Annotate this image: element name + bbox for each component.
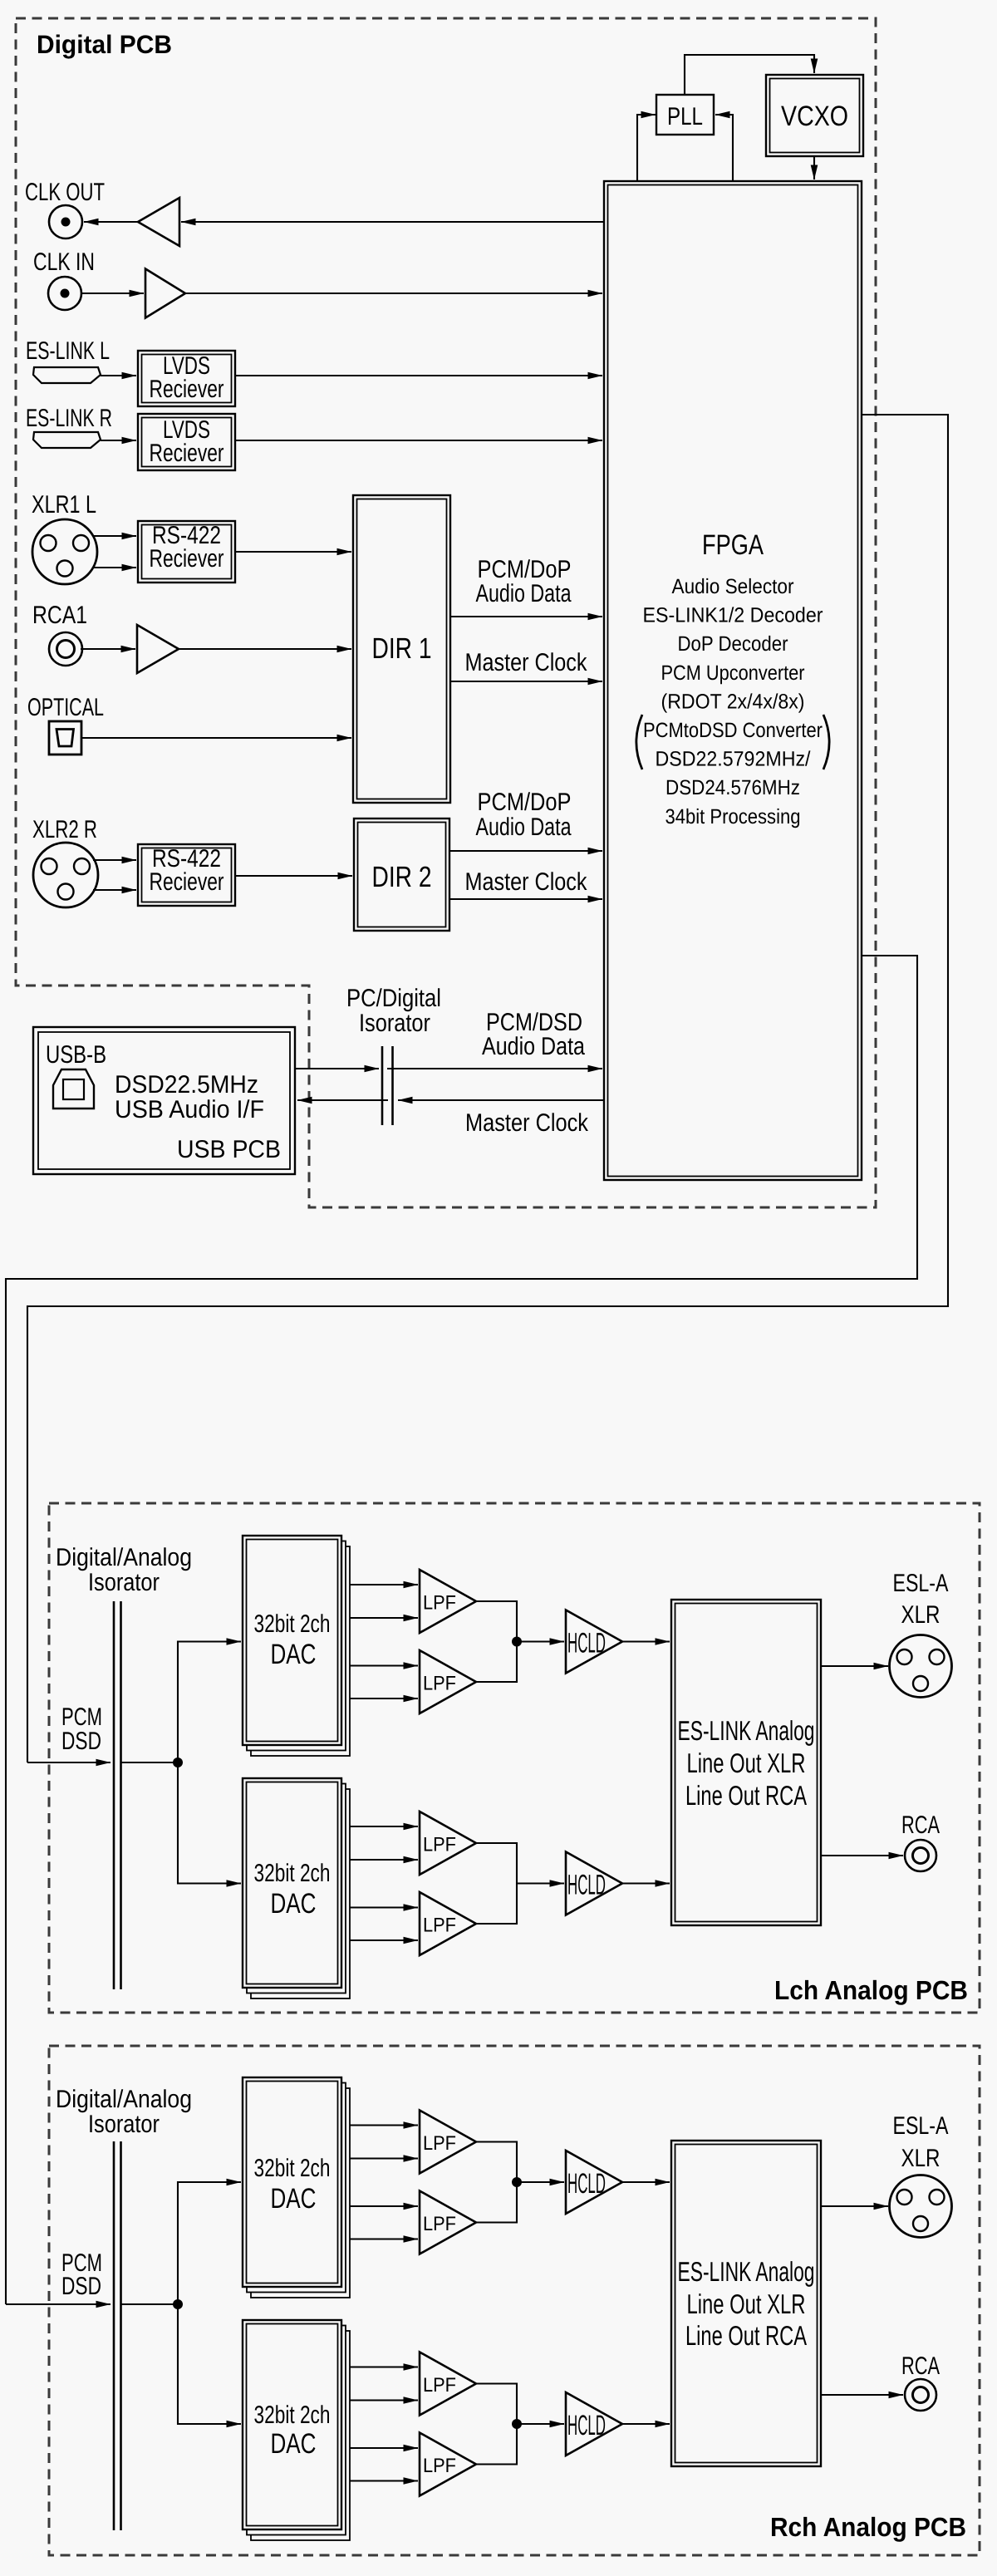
svg-text:Digital/Analog: Digital/Analog <box>56 2086 192 2113</box>
Digital PCB dashed boundary <box>16 18 876 1207</box>
wire Rch to RCA out <box>821 2394 903 2396</box>
wire HCLD Lch group 1 to line-out block <box>622 1640 670 1642</box>
junction dot Lch input <box>173 1757 183 1767</box>
wire FPGA to PLL right <box>715 115 733 181</box>
wire Rch junction to DAC1 <box>178 2182 241 2304</box>
junction dot Rch group 2 <box>512 2419 522 2429</box>
amp LPF Rch 3 <box>420 2352 476 2416</box>
wire FPGA to CLK OUT buffer <box>181 221 604 223</box>
svg-text:LPF: LPF <box>423 2374 456 2397</box>
wire to HCLD Rch group 2 <box>517 2423 564 2425</box>
FPGA big parentheses <box>636 715 642 769</box>
svg-text:LPF: LPF <box>423 2455 456 2477</box>
svg-text:Reciever: Reciever <box>150 545 224 573</box>
block 32bit 2ch DAC Lch 1 (stacked) <box>251 1546 350 1756</box>
svg-text:XLR: XLR <box>901 1601 941 1629</box>
wire PCM/DSD input into Rch isolator <box>6 2303 111 2305</box>
isolator PC/Digital bars <box>381 1046 384 1125</box>
svg-text:32bit 2ch: 32bit 2ch <box>254 1860 331 1887</box>
svg-text:LPF: LPF <box>423 1834 456 1856</box>
svg-text:Line Out RCA: Line Out RCA <box>685 2320 807 2351</box>
wire to HCLD Rch group 1 <box>517 2181 564 2183</box>
svg-text:USB PCB: USB PCB <box>177 1136 281 1163</box>
wire USB audio to FPGA <box>295 1068 379 1069</box>
svg-text:Line Out RCA: Line Out RCA <box>685 1780 807 1811</box>
wire XLR2 to RS-422 upper <box>93 859 136 861</box>
wire Lch to RCA out <box>821 1855 903 1856</box>
wire DIR 2 audio data to FPGA <box>449 850 602 852</box>
svg-text:Audio Data: Audio Data <box>482 1033 585 1060</box>
amp HCLD Lch group 2 <box>566 1852 622 1915</box>
svg-text:PC/Digital: PC/Digital <box>346 985 441 1012</box>
svg-text:Digital PCB: Digital PCB <box>37 30 172 59</box>
block 32bit 2ch DAC Rch 1 (stacked) <box>251 2088 350 2298</box>
block LVDS Receiver L <box>138 351 235 406</box>
svg-text:USB-B: USB-B <box>46 1041 106 1069</box>
svg-text:LPF: LPF <box>423 2132 456 2155</box>
connector RCA1 <box>49 632 82 666</box>
svg-text:HCLD: HCLD <box>567 1628 606 1659</box>
connector OPTICAL toslink <box>49 721 81 755</box>
connector ES-LINK L <box>33 367 101 383</box>
connector XLR1 L <box>32 519 97 584</box>
wires DAC Rch 1 outputs to LPFs <box>350 2124 418 2126</box>
svg-text:34bit Processing: 34bit Processing <box>665 805 801 828</box>
svg-text:XLR2 R: XLR2 R <box>32 816 97 843</box>
svg-text:ES-LINK Analog: ES-LINK Analog <box>678 1715 815 1746</box>
connector USB-B icon <box>53 1069 94 1109</box>
amp LPF Lch 1 <box>420 1570 476 1633</box>
wire DIR 2 master clock to FPGA <box>449 898 602 900</box>
svg-text:Audio Selector: Audio Selector <box>672 575 794 598</box>
wire ES-LINK R to LVDS receiver <box>101 440 136 441</box>
junction dot Rch input <box>173 2299 183 2309</box>
wire RCA1 to buffer <box>81 648 135 650</box>
block 32bit 2ch DAC Lch 2 (stacked) <box>251 1789 350 1998</box>
amp LPF Lch 3 <box>420 1812 476 1875</box>
svg-text:OPTICAL: OPTICAL <box>27 694 104 721</box>
svg-text:HCLD: HCLD <box>567 1870 606 1901</box>
svg-text:Reciever: Reciever <box>150 376 224 403</box>
svg-text:Line Out XLR: Line Out XLR <box>687 2288 806 2319</box>
wire RCA1 buffer to DIR 1 <box>179 648 351 650</box>
svg-text:32bit 2ch: 32bit 2ch <box>254 2155 331 2182</box>
svg-text:VCXO: VCXO <box>781 101 848 132</box>
wire Lch to ESL-A XLR out <box>821 1665 888 1667</box>
wire LPF join Lch group 2 <box>476 1843 517 1924</box>
svg-text:ESL-A: ESL-A <box>893 1570 949 1597</box>
wire LVDS R to FPGA <box>235 440 602 441</box>
block PLL <box>656 95 714 135</box>
wire FPGA master clock to USB <box>398 1099 604 1101</box>
wire DIR 1 master clock to FPGA <box>450 681 602 682</box>
block FPGA <box>604 181 862 1180</box>
svg-text:ES-LINK Analog: ES-LINK Analog <box>678 2256 815 2287</box>
svg-text:DIR 2: DIR 2 <box>372 861 432 893</box>
block DIR 2 <box>354 819 449 931</box>
wire HCLD Rch group 1 to line-out block <box>622 2181 670 2183</box>
svg-text:32bit 2ch: 32bit 2ch <box>254 2401 331 2429</box>
wire FPGA to PLL left <box>637 115 656 181</box>
svg-text:HCLD: HCLD <box>567 2410 606 2441</box>
wire Lch junction to DAC2 <box>178 1762 241 1884</box>
wire Rch to ESL-A XLR out <box>821 2205 888 2207</box>
buffer amp CLK OUT <box>138 198 179 246</box>
wire Rch junction to DAC2 <box>178 2304 241 2424</box>
block LVDS Receiver R <box>138 414 235 470</box>
Lch Analog PCB dashed boundary <box>49 1503 980 2013</box>
Rch Analog PCB dashed boundary <box>49 2046 980 2555</box>
connector ESL-A XLR out Lch <box>890 1635 952 1698</box>
block RS-422 Receiver 1 <box>138 521 235 583</box>
svg-text:ES-LINK L: ES-LINK L <box>26 337 110 365</box>
svg-text:Lch Analog PCB: Lch Analog PCB <box>774 1975 968 2005</box>
svg-text:Audio Data: Audio Data <box>476 580 572 607</box>
wire LPF join Rch group 1 <box>476 2142 517 2223</box>
wire XLR1 to RS-422 upper <box>92 535 136 537</box>
wires DAC Lch 1 outputs to LPFs <box>350 1584 418 1585</box>
amp LPF Lch 2 <box>420 1650 476 1713</box>
isolator Digital/Analog bars Rch <box>113 2141 115 2530</box>
connector ES-LINK R <box>33 432 101 448</box>
svg-text:USB Audio I/F: USB Audio I/F <box>115 1096 264 1123</box>
amp LPF Rch 1 <box>420 2111 476 2174</box>
svg-text:PCM Upconverter: PCM Upconverter <box>661 661 805 685</box>
wire to HCLD Lch group 2 <box>517 1882 564 1884</box>
connector RCA out Lch <box>905 1840 936 1871</box>
svg-text:(RDOT 2x/4x/8x): (RDOT 2x/4x/8x) <box>661 690 805 713</box>
wire VCXO to FPGA <box>813 156 815 179</box>
svg-text:XLR: XLR <box>901 2145 941 2172</box>
amp HCLD Rch group 1 <box>566 2151 622 2214</box>
wire CLK IN jack to buffer <box>81 293 144 294</box>
svg-text:CLK IN: CLK IN <box>33 248 95 276</box>
svg-text:Audio Data: Audio Data <box>476 814 572 841</box>
svg-text:PCMtoDSD Converter: PCMtoDSD Converter <box>643 719 823 742</box>
connector CLK OUT BNC <box>49 205 82 238</box>
svg-text:ES-LINK1/2 Decoder: ES-LINK1/2 Decoder <box>643 604 823 627</box>
wire XLR1 to RS-422 lower <box>92 567 136 568</box>
block 32bit 2ch DAC Rch 2 (stacked) <box>251 2331 350 2540</box>
wire LVDS L to FPGA <box>235 375 602 376</box>
wires DAC Rch 2 outputs to LPFs <box>350 2366 418 2367</box>
svg-text:Digital/Analog: Digital/Analog <box>56 1544 192 1571</box>
wire DIR 1 audio data to FPGA <box>450 616 602 617</box>
connector CLK IN BNC <box>48 277 81 310</box>
svg-text:ES-LINK R: ES-LINK R <box>26 405 112 432</box>
svg-text:HCLD: HCLD <box>567 2168 606 2200</box>
svg-text:RCA: RCA <box>901 1812 940 1839</box>
amp LPF Rch 4 <box>420 2433 476 2496</box>
svg-text:CLK OUT: CLK OUT <box>25 179 105 206</box>
junction dot Rch group 1 <box>512 2177 522 2187</box>
svg-text:DAC: DAC <box>271 1888 317 1920</box>
wire FPGA to Lch analog board <box>27 415 948 1762</box>
wire PLL to VCXO <box>685 55 814 95</box>
wire FPGA to Rch analog board <box>6 956 917 2304</box>
svg-text:DSD22.5792MHz/: DSD22.5792MHz/ <box>656 748 811 771</box>
svg-text:Isorator: Isorator <box>88 1569 160 1596</box>
block VCXO <box>766 75 863 156</box>
svg-text:DIR 1: DIR 1 <box>372 632 432 665</box>
svg-text:Master Clock: Master Clock <box>465 1109 589 1137</box>
svg-text:32bit 2ch: 32bit 2ch <box>254 1610 331 1638</box>
svg-text:Isorator: Isorator <box>359 1010 430 1037</box>
block USB PCB <box>33 1027 295 1174</box>
wires DAC Lch 2 outputs to LPFs <box>350 1826 418 1827</box>
svg-text:Reciever: Reciever <box>150 868 224 896</box>
svg-text:LPF: LPF <box>423 1915 456 1937</box>
wire HCLD Lch group 2 to line-out block <box>622 1882 670 1884</box>
connector RCA out Rch <box>905 2379 936 2411</box>
amp LPF Lch 4 <box>420 1892 476 1955</box>
svg-text:RCA1: RCA1 <box>32 602 87 629</box>
svg-text:DAC: DAC <box>271 2428 317 2460</box>
isolator Digital/Analog bars Lch <box>113 1601 115 1989</box>
wire to HCLD Lch group 1 <box>517 1640 564 1642</box>
svg-text:LPF: LPF <box>423 1592 456 1615</box>
wire HCLD Rch group 2 to line-out block <box>622 2423 670 2425</box>
svg-text:DSD24.576MHz: DSD24.576MHz <box>665 776 800 799</box>
buffer amp RCA1 <box>137 625 179 673</box>
amp LPF Rch 2 <box>420 2191 476 2254</box>
svg-text:DAC: DAC <box>271 2183 317 2215</box>
block ES-LINK Analog Line Out Lch <box>671 1600 821 1925</box>
svg-text:LPF: LPF <box>423 2213 456 2235</box>
svg-text:DSD: DSD <box>61 2273 101 2300</box>
junction dot Lch group 1 <box>512 1637 522 1647</box>
svg-text:Rch Analog PCB: Rch Analog PCB <box>770 2512 966 2542</box>
wire LPF join Rch group 2 <box>476 2384 517 2465</box>
wire XLR2 to RS-422 lower <box>93 889 136 891</box>
wire CLK IN buffer to FPGA <box>185 293 602 294</box>
buffer amp CLK IN <box>145 269 185 318</box>
svg-text:FPGA: FPGA <box>702 529 764 561</box>
wire PCM/DSD input into Lch isolator <box>27 1762 111 1763</box>
amp HCLD Lch group 1 <box>566 1610 622 1674</box>
wire Lch junction to DAC1 <box>178 1642 241 1763</box>
svg-text:XLR1 L: XLR1 L <box>32 491 96 519</box>
wire buffer to CLK OUT jack <box>84 221 138 223</box>
svg-text:Reciever: Reciever <box>150 440 224 467</box>
connector ESL-A XLR out Rch <box>890 2175 952 2238</box>
connector XLR2 R <box>33 843 98 907</box>
block ES-LINK Analog Line Out Rch <box>671 2141 821 2466</box>
svg-text:DSD22.5MHz: DSD22.5MHz <box>115 1071 258 1099</box>
svg-text:DSD: DSD <box>61 1728 101 1755</box>
svg-text:PLL: PLL <box>667 103 703 130</box>
svg-text:Master Clock: Master Clock <box>465 649 588 676</box>
amp HCLD Rch group 2 <box>566 2392 622 2456</box>
block RS-422 Receiver 2 <box>138 844 235 906</box>
svg-text:Master Clock: Master Clock <box>465 868 588 896</box>
block DIR 1 <box>353 495 450 803</box>
wire ES-LINK L to LVDS receiver <box>101 375 136 376</box>
svg-text:DoP Decoder: DoP Decoder <box>678 632 788 656</box>
wire LPF join Lch group 1 <box>476 1601 517 1682</box>
svg-text:ESL-A: ESL-A <box>893 2112 949 2140</box>
svg-text:Line Out XLR: Line Out XLR <box>687 1748 806 1778</box>
svg-text:PCM/DoP: PCM/DoP <box>478 789 572 816</box>
wire RS-422 1 to DIR 1 <box>235 551 351 553</box>
wire RS-422 2 to DIR 2 <box>235 875 352 877</box>
wire OPTICAL to DIR 1 <box>81 737 351 739</box>
svg-text:DAC: DAC <box>271 1639 317 1670</box>
svg-text:Isorator: Isorator <box>88 2111 160 2138</box>
svg-text:RCA: RCA <box>901 2352 940 2380</box>
svg-text:LPF: LPF <box>423 1673 456 1695</box>
